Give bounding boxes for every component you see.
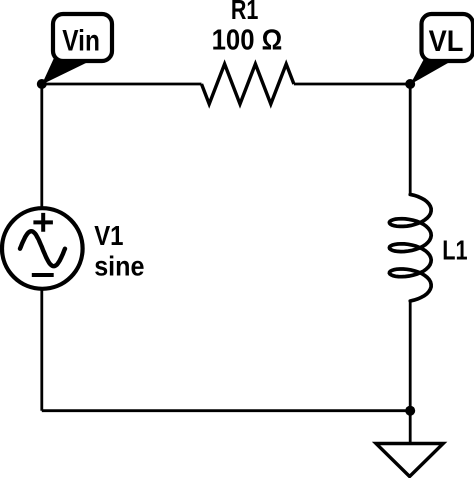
voltage source V1 circle bbox=[2, 208, 83, 289]
svg-text:100 Ω: 100 Ω bbox=[212, 25, 283, 57]
resistor R1 bbox=[202, 64, 294, 104]
svg-text:Vin: Vin bbox=[62, 25, 100, 58]
svg-text:sine: sine bbox=[94, 250, 144, 281]
callout VL tail bbox=[410, 56, 448, 85]
svg-text:V1: V1 bbox=[94, 220, 123, 251]
inductor L1 coil bbox=[389, 194, 431, 301]
callout Vin tail bbox=[42, 53, 87, 85]
ground symbol bbox=[376, 444, 443, 477]
V1 plus sign bbox=[33, 213, 53, 232]
node Vin dot bbox=[37, 79, 47, 89]
wire L1 bottom to ground node bbox=[409, 300, 412, 411]
callout VL box bbox=[422, 14, 474, 61]
callout Vin box bbox=[53, 14, 112, 61]
wire bottom-left corner to ground node bbox=[42, 409, 410, 412]
svg-text:R1: R1 bbox=[231, 0, 259, 25]
V1 minus sign bbox=[32, 273, 54, 277]
node ground dot bbox=[405, 406, 415, 416]
wire Vin node to R1 left lead bbox=[42, 83, 202, 86]
wire VL node down to L1 top bbox=[409, 84, 412, 196]
svg-text:L1: L1 bbox=[442, 235, 467, 266]
svg-text:VL: VL bbox=[429, 25, 464, 58]
V1 sine symbol bbox=[20, 231, 65, 266]
wire ground node to ground symbol bbox=[409, 411, 412, 444]
node VL dot bbox=[405, 79, 415, 89]
wire V1 bottom to bottom-left corner bbox=[40, 289, 43, 411]
wire R1 right lead to VL node bbox=[294, 83, 410, 86]
wire Vin node down to V1 top bbox=[40, 84, 43, 209]
